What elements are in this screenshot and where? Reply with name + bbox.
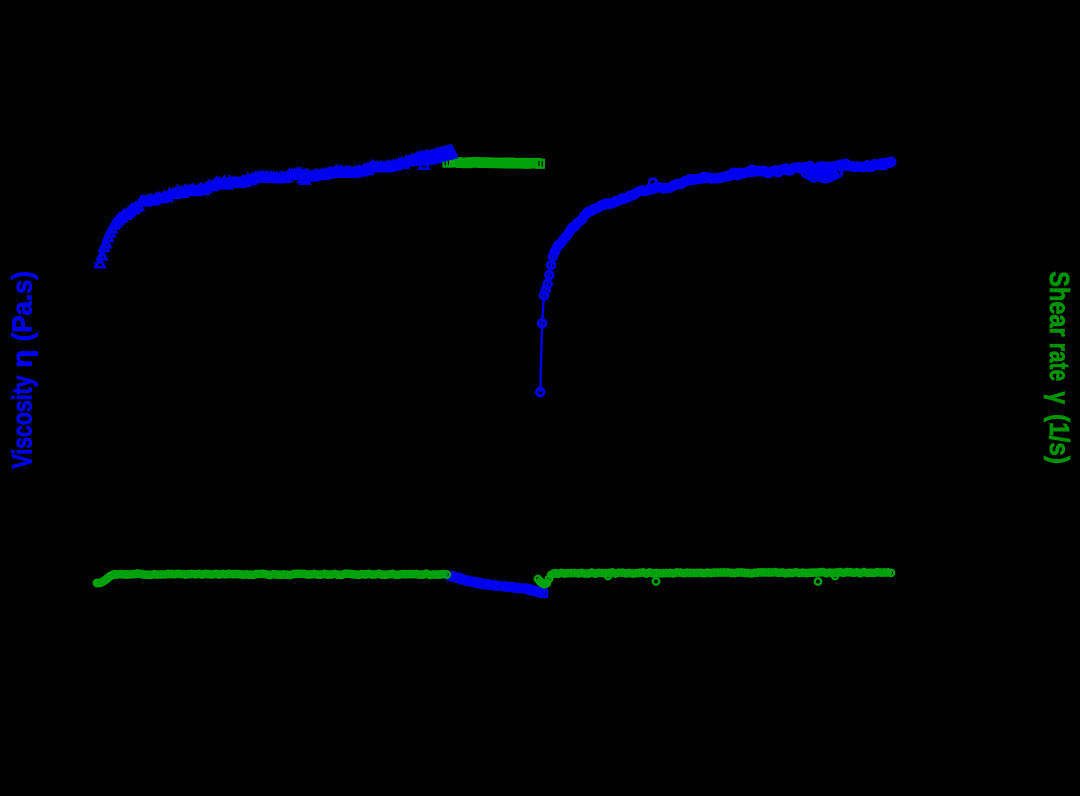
svg-text:Viscosity: Viscosity — [7, 375, 38, 468]
svg-text:η: η — [7, 350, 38, 368]
svg-text:(Pa.s): (Pa.s) — [7, 271, 38, 341]
svg-text:Shear: Shear — [1044, 271, 1075, 336]
svg-text:(1/s): (1/s) — [1044, 414, 1075, 464]
svg-text:γ: γ — [1044, 392, 1075, 405]
svg-text:rate: rate — [1044, 343, 1075, 381]
